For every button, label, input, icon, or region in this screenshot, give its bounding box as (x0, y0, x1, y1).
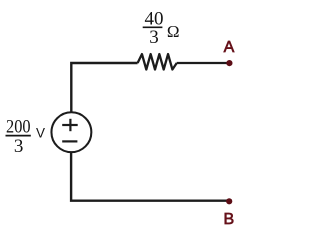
resistor R (40/3 ohm) zigzag (138, 54, 177, 69)
voltage source V1 plus sign (62, 119, 77, 131)
svg-text:A: A (224, 39, 235, 56)
svg-text:200: 200 (6, 117, 31, 138)
wire: left vertical from voltage source top up and right to resistor left lead (71, 63, 137, 113)
node A terminal dot (226, 60, 232, 66)
voltage source V1 circle (51, 112, 91, 152)
wire: left vertical from voltage source bottom down and right to node B (71, 152, 229, 200)
svg-text:B: B (223, 211, 234, 228)
svg-text:3: 3 (149, 27, 159, 48)
node B terminal dot (226, 198, 232, 204)
svg-text:V: V (36, 126, 45, 141)
value label: source fraction bar (6, 135, 31, 137)
voltage source V1 minus sign (62, 140, 77, 142)
svg-text:3: 3 (14, 136, 24, 157)
wire: top horizontal from resistor right lead to node A (177, 62, 230, 64)
value label: resistor fraction bar (143, 26, 163, 28)
svg-text:40: 40 (145, 8, 164, 29)
svg-text:Ω: Ω (167, 22, 180, 41)
